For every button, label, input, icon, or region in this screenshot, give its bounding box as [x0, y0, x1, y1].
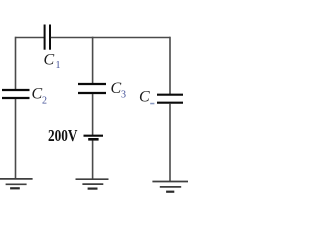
capacitor C1	[45, 25, 50, 50]
wire middle branch mid	[92, 94, 94, 135]
ground left	[0, 179, 33, 188]
wire middle branch upper	[92, 37, 94, 83]
capacitor C2	[2, 90, 30, 98]
capacitor C3	[78, 84, 106, 93]
label C2	[32, 86, 48, 107]
label C1	[44, 52, 61, 72]
wire right branch upper	[169, 37, 171, 94]
svg-text:C: C	[139, 89, 150, 106]
wire top-left segment	[16, 37, 45, 39]
wire left branch upper	[15, 37, 17, 89]
svg-text:3: 3	[121, 90, 126, 101]
capacitor C4	[157, 95, 183, 103]
svg-text:C: C	[44, 52, 55, 69]
ground right	[152, 182, 188, 192]
wire right branch lower	[169, 104, 171, 181]
label C4	[139, 89, 154, 106]
svg-text:200V: 200V	[48, 126, 78, 145]
svg-text:1: 1	[56, 60, 61, 71]
battery V1 200V	[84, 136, 104, 140]
wire top-right segment	[51, 37, 170, 39]
ground middle	[76, 179, 109, 188]
wire middle branch lower	[92, 141, 94, 179]
wire left branch lower	[15, 99, 17, 179]
svg-text:C: C	[111, 80, 122, 97]
svg-text:C: C	[32, 86, 43, 103]
label C3	[111, 80, 127, 101]
svg-text:2: 2	[42, 96, 47, 107]
